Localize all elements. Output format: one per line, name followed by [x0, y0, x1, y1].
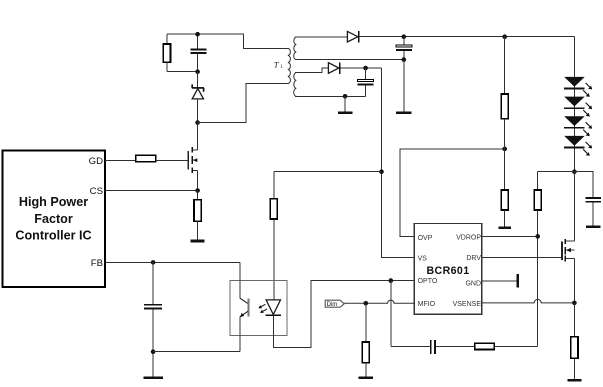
wire aux return	[295, 95, 366, 97]
wire feedback loop middle	[436, 345, 475, 347]
node CS sense	[195, 188, 200, 193]
ground output	[396, 111, 412, 114]
ground dim resistor	[359, 377, 373, 380]
node aux cap top	[363, 66, 368, 71]
wire CS line	[105, 190, 198, 192]
svg-text:OPTO: OPTO	[418, 278, 438, 285]
optocoupler LED	[266, 300, 281, 316]
ground CS	[191, 240, 205, 243]
transistor Q2 MOSFET	[561, 172, 574, 303]
wire feedback loop vertical	[390, 281, 392, 347]
node output cap top	[402, 34, 407, 39]
svg-text:BCR601: BCR601	[426, 265, 469, 277]
node snubber bottom	[195, 69, 200, 74]
svg-text:FB: FB	[91, 258, 103, 269]
node aux return	[343, 94, 348, 99]
capacitor C snubber	[190, 34, 206, 71]
wire OVP route	[400, 149, 505, 237]
wire Dim to MFIO with hop	[344, 300, 414, 303]
wire VS supply vertical	[382, 68, 415, 258]
wire feedback loop right	[494, 345, 537, 347]
node snubber top	[195, 32, 200, 37]
ground aux	[338, 111, 352, 114]
capacitor C right	[586, 197, 601, 225]
resistor R snubber	[163, 34, 170, 71]
svg-text:VSENSE: VSENSE	[453, 301, 482, 308]
wire aux return to ground	[344, 96, 346, 111]
capacitor C aux electrolytic	[358, 68, 374, 96]
optocoupler LED arrows	[258, 304, 267, 313]
diode D2 aux rectifier	[328, 62, 340, 74]
resistor R VDROP	[534, 172, 541, 347]
wire snubber bottom rail	[167, 71, 198, 73]
LED D3	[564, 77, 585, 89]
wire aux rail	[341, 67, 382, 69]
node LED string bottom	[572, 169, 577, 174]
capacitor C feedback series	[430, 340, 436, 354]
node OVP divider top	[502, 34, 507, 39]
svg-text:VDROP: VDROP	[456, 234, 481, 241]
node FB cap top	[151, 260, 156, 265]
wire snubber top rail	[167, 34, 288, 48]
node emitter return	[151, 349, 156, 354]
IC BCR601 box	[414, 224, 482, 315]
transformer T1	[274, 37, 297, 96]
wire DRV to gate	[482, 257, 562, 259]
svg-text:GD: GD	[89, 156, 103, 167]
wire output positive rail	[360, 36, 575, 38]
wire aux winding to diode	[295, 68, 328, 73]
capacitor C output electrolytic	[396, 37, 412, 60]
ground right cap	[586, 226, 600, 229]
node opto anode branch	[379, 169, 384, 174]
ground GND pin bar	[517, 274, 520, 288]
ground sense resistor	[567, 379, 581, 382]
resistor R sense	[571, 303, 578, 379]
node VDROP	[535, 234, 540, 239]
svg-text:VS: VS	[418, 256, 428, 263]
LED D3 arrows	[583, 83, 592, 97]
wire output return to ground	[403, 60, 405, 112]
LED D5	[564, 116, 585, 128]
connector Dim input	[325, 300, 344, 308]
node Dim divider	[364, 301, 369, 306]
resistor R opto anode	[270, 172, 277, 300]
node primary return	[195, 120, 200, 125]
wire feedback loop bottom left	[391, 345, 430, 347]
wire VDROP pin	[482, 235, 538, 237]
svg-text:DRV: DRV	[466, 255, 481, 262]
LED D5 arrows	[583, 122, 592, 136]
optocoupler box	[230, 280, 287, 335]
wire output return rail	[295, 59, 404, 61]
wire FB line	[105, 261, 240, 263]
wire primary return	[198, 84, 288, 123]
svg-text:CS: CS	[90, 186, 103, 197]
ground FB cap	[143, 376, 162, 379]
resistor R OVP upper	[501, 37, 508, 149]
capacitor C FB	[144, 262, 162, 376]
svg-text:MFIO: MFIO	[418, 301, 436, 308]
wire opto anode branch	[274, 171, 382, 173]
node OPTO feedback tap	[389, 278, 394, 283]
LED D6	[564, 136, 585, 148]
svg-text:OVP: OVP	[418, 235, 433, 242]
wire secondary top rail	[295, 36, 347, 38]
node output return	[402, 57, 407, 62]
svg-text:GND: GND	[465, 281, 481, 288]
ground OVP divider	[498, 226, 511, 229]
wire VSENSE with hop	[482, 299, 575, 302]
wire GD to gate resistor	[105, 159, 136, 161]
node VSENSE	[572, 301, 577, 306]
svg-text:Dim: Dim	[327, 302, 338, 308]
resistor R feedback	[475, 343, 495, 349]
resistor R CS sense	[194, 191, 201, 240]
resistor R gate	[136, 155, 156, 161]
optocoupler phototransistor	[240, 262, 249, 351]
wire LED top feed	[573, 37, 575, 172]
resistor R dim	[362, 303, 369, 376]
LED D4 arrows	[583, 103, 592, 117]
wire opto cathode route to OPTO pin	[273, 281, 414, 348]
wire GND pin	[482, 280, 517, 282]
wire gate resistor to MOSFET gate	[156, 159, 188, 161]
svg-text:High Power: High Power	[19, 195, 88, 209]
resistor R OVP lower	[501, 149, 508, 226]
LED D4	[564, 97, 585, 109]
zener diode clamp	[192, 72, 204, 123]
wire LED bottom to right cap	[574, 172, 593, 198]
svg-text:Controller IC: Controller IC	[15, 229, 91, 243]
diode D1 output rectifier	[347, 31, 359, 43]
controller IC box	[3, 150, 105, 287]
LED D6 arrows	[583, 142, 592, 156]
svg-text:Factor: Factor	[34, 212, 73, 226]
node OVP divider tap	[502, 147, 507, 152]
wire LED bottom to VDROP resistor	[538, 171, 575, 173]
wire emitter return	[153, 351, 240, 353]
transistor Q1 MOSFET	[188, 123, 198, 191]
svg-text:1: 1	[280, 64, 283, 70]
